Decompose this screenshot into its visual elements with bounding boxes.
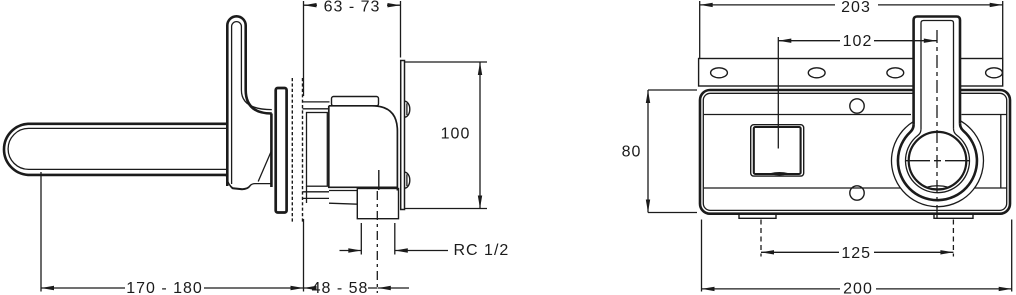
plate screw boss lower bbox=[405, 172, 410, 188]
bracket slot 3 bbox=[887, 68, 904, 78]
boss inner circle bbox=[909, 132, 967, 190]
svg-text:RC 1/2: RC 1/2 bbox=[454, 242, 510, 259]
body internal line bbox=[378, 170, 380, 190]
bracket slot 2 bbox=[808, 68, 825, 78]
mounting plate bbox=[401, 61, 405, 210]
function square inner bbox=[754, 127, 801, 174]
mounting bracket bbox=[699, 59, 1003, 87]
svg-text:63 - 73: 63 - 73 bbox=[324, 0, 381, 16]
bottom tab right bbox=[934, 214, 973, 219]
svg-text:48 - 58: 48 - 58 bbox=[312, 280, 369, 295]
dimension 80 bbox=[622, 90, 697, 213]
outlet box bbox=[357, 189, 398, 219]
handle hub edge bbox=[270, 114, 273, 188]
svg-text:200: 200 bbox=[843, 281, 873, 295]
svg-text:170 - 180: 170 - 180 bbox=[126, 280, 203, 295]
svg-text:125: 125 bbox=[841, 245, 871, 262]
valve body top cap bbox=[332, 97, 379, 106]
boss crosshair bbox=[906, 30, 970, 222]
dimension 200 bbox=[702, 220, 1012, 295]
under-body bottom contour bbox=[227, 175, 273, 189]
stem inner lines and inner keyhole bbox=[905, 21, 969, 193]
spout outer pill bbox=[4, 124, 227, 175]
dimension RC 1/2 bbox=[340, 223, 510, 259]
lever handle blade bbox=[227, 16, 271, 188]
bracket slot 1 bbox=[711, 68, 728, 78]
bottom pipe fitting box bbox=[329, 191, 357, 205]
dimension 203 bbox=[700, 0, 1003, 58]
bottom supply pipe bbox=[303, 192, 330, 199]
valve body outer bbox=[700, 90, 1010, 214]
wall dashed lines bbox=[292, 78, 302, 222]
function square outer bbox=[751, 125, 804, 176]
screw hole top bbox=[850, 99, 864, 113]
dimension 100 bbox=[405, 62, 487, 209]
dimension 48-58 bbox=[304, 219, 410, 295]
valve body inner outline bbox=[703, 93, 1006, 210]
plate screw boss upper bbox=[405, 101, 410, 117]
raised band lines bbox=[704, 115, 1007, 189]
escutcheon bbox=[276, 88, 287, 213]
svg-text:80: 80 bbox=[622, 144, 642, 161]
bracket slot 4 bbox=[986, 68, 1003, 78]
screw hole bottom bbox=[850, 186, 864, 200]
boss outer bulge bbox=[891, 121, 983, 207]
outlet centerline dashed bbox=[376, 191, 378, 293]
svg-text:100: 100 bbox=[441, 126, 471, 143]
rough-in housing front box bbox=[307, 113, 328, 204]
top supply pipe bbox=[303, 102, 330, 109]
stem and keyhole outer bbox=[898, 17, 977, 201]
dimension 102 bbox=[778, 33, 937, 149]
dimension 125 bbox=[761, 220, 953, 263]
svg-text:203: 203 bbox=[841, 0, 871, 16]
dimension 170-180 bbox=[41, 172, 304, 295]
svg-text:102: 102 bbox=[843, 33, 873, 50]
valve body bbox=[329, 106, 398, 191]
boss bottom mark bbox=[926, 186, 949, 189]
dimension 63-73 bbox=[304, 0, 401, 96]
bottom tab left bbox=[739, 214, 776, 219]
spout inner lines bbox=[8, 128, 227, 169]
square bottom mark bbox=[771, 173, 789, 175]
handle base diagonal bbox=[258, 150, 272, 182]
